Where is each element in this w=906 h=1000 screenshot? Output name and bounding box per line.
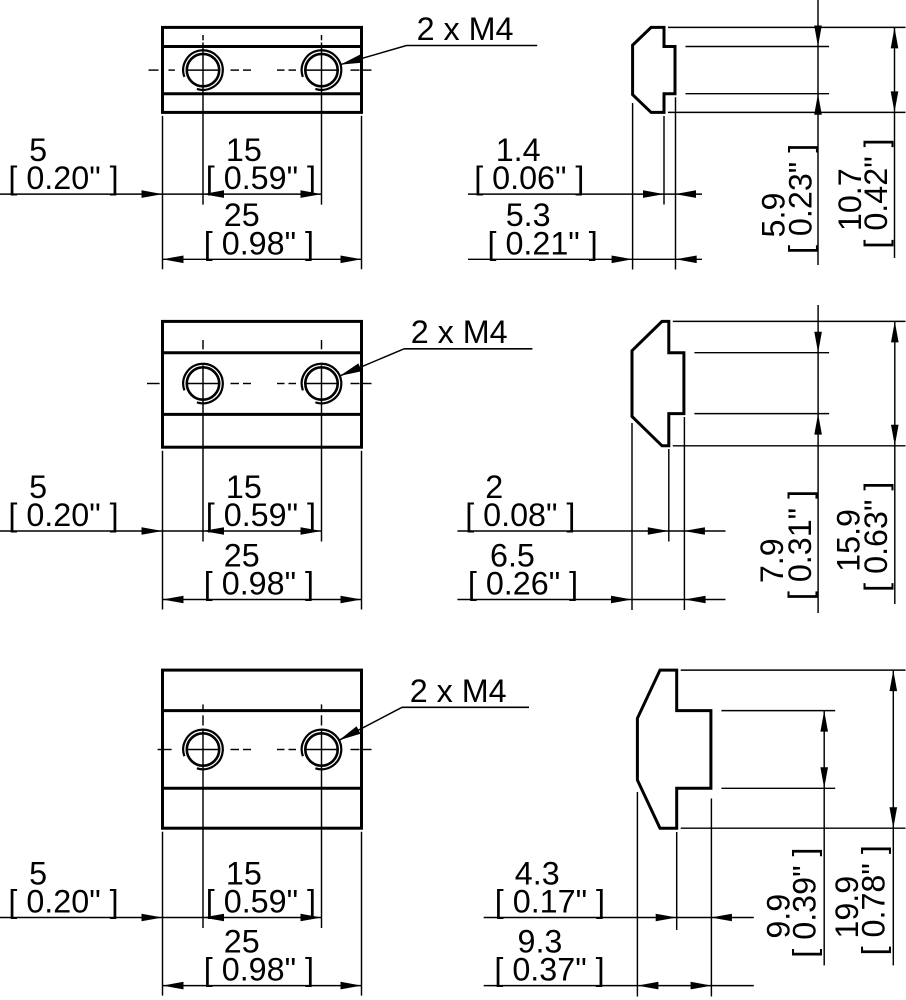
svg-text:[ 0.63" ]: [ 0.63" ] (858, 482, 894, 592)
svg-text:[ 0.98" ]: [ 0.98" ] (204, 566, 314, 602)
svg-text:[ 0.20" ]: [ 0.20" ] (8, 160, 118, 196)
svg-text:[ 0.31" ]: [ 0.31" ] (782, 490, 818, 600)
svg-text:2 x M4: 2 x M4 (410, 673, 507, 709)
svg-text:[ 0.20" ]: [ 0.20" ] (8, 884, 118, 920)
svg-text:[ 0.59" ]: [ 0.59" ] (206, 884, 316, 920)
svg-text:[ 0.59" ]: [ 0.59" ] (206, 160, 316, 196)
svg-text:[ 0.98" ]: [ 0.98" ] (204, 952, 314, 988)
svg-text:[ 0.08" ]: [ 0.08" ] (465, 497, 575, 533)
svg-text:[ 0.78" ]: [ 0.78" ] (855, 845, 891, 955)
svg-text:2 x M4: 2 x M4 (417, 11, 514, 47)
svg-text:2 x M4: 2 x M4 (411, 314, 508, 350)
svg-text:[ 0.23" ]: [ 0.23" ] (783, 144, 819, 254)
svg-text:[ 0.20" ]: [ 0.20" ] (8, 497, 118, 533)
svg-text:[ 0.39" ]: [ 0.39" ] (787, 847, 823, 957)
svg-text:[ 0.42" ]: [ 0.42" ] (858, 138, 894, 248)
svg-text:[ 0.06" ]: [ 0.06" ] (474, 160, 584, 196)
svg-text:[ 0.21" ]: [ 0.21" ] (488, 225, 598, 261)
svg-text:[ 0.37" ]: [ 0.37" ] (494, 952, 604, 988)
svg-text:[ 0.59" ]: [ 0.59" ] (206, 497, 316, 533)
svg-text:[ 0.17" ]: [ 0.17" ] (495, 884, 605, 920)
svg-text:[ 0.26" ]: [ 0.26" ] (468, 566, 578, 602)
svg-text:[ 0.98" ]: [ 0.98" ] (204, 225, 314, 261)
